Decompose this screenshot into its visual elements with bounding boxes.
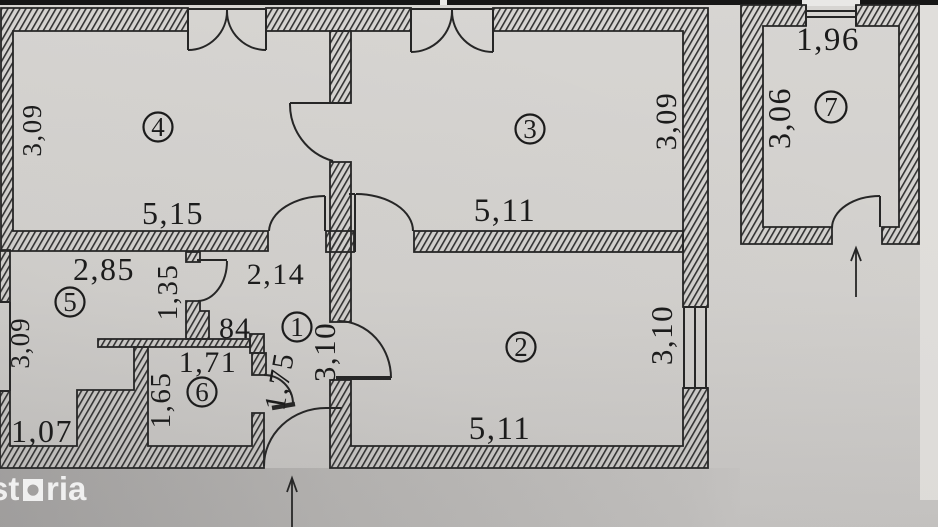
door to room 6: arc <box>264 375 293 404</box>
entrance door arc <box>264 408 326 466</box>
door to room 5: arc <box>198 261 227 301</box>
window W3 jambs <box>410 8 412 52</box>
right paper edge strip <box>920 5 938 500</box>
window W4 jambs <box>187 8 189 50</box>
room 7 top right + right wall + stub <box>856 5 919 244</box>
top exterior wall left segment + left wall + divider wall rooms 4|5 <box>1 8 268 251</box>
door to room 3: arc <box>356 194 413 231</box>
entrance arrow <box>291 479 293 527</box>
room 7 arrow <box>855 250 857 297</box>
notch in black bar <box>440 0 447 5</box>
window in room 7 top wall <box>805 5 807 26</box>
room 7 door: leaf <box>879 196 881 227</box>
room label 7 <box>816 92 847 123</box>
bottom wall right + central wall lower + right wall lower <box>330 380 708 468</box>
bottom-left wall complex (left wall lower, bottom wall, mass, room 6 walls) <box>0 347 264 468</box>
white tab above room 7 window <box>802 0 860 6</box>
room 5 door pier <box>186 301 209 339</box>
bottom grey band <box>0 468 740 527</box>
central wall junction block <box>326 231 354 252</box>
central wall middle segment <box>330 162 351 322</box>
central wall upper segment (rooms 4|3) <box>330 31 351 103</box>
door rooms 4-3: arc <box>290 103 333 161</box>
window in left wall of room 5 <box>9 302 11 391</box>
door to room 6: leaf (thick) <box>272 404 295 408</box>
top black bar <box>0 0 938 5</box>
room label 5 <box>56 287 85 317</box>
door corridor to room 4: arc <box>269 196 325 231</box>
room label 1 <box>283 312 312 342</box>
room label 2 <box>507 332 536 362</box>
room label 4 <box>144 112 173 142</box>
room label 3 <box>516 114 545 144</box>
door rooms 4-3: leaf <box>290 102 350 104</box>
left exterior wall mid <box>0 250 10 302</box>
room 3 bottom wall <box>414 231 683 252</box>
window W4 facade line <box>188 8 266 10</box>
door to room 2: leaf (thick) <box>336 376 391 380</box>
watermark storia <box>0 470 87 507</box>
window in right wall of room 2 <box>683 306 708 308</box>
top exterior wall middle segment <box>266 8 411 31</box>
room 7 left+top+bottom walls <box>741 5 832 244</box>
window W3 facade line <box>411 8 493 10</box>
top exterior wall right segment + right exterior wall upper <box>493 8 708 307</box>
door to room 2: arc <box>339 321 391 378</box>
room 6 top wall end block <box>250 334 264 353</box>
room 5 door stub <box>186 252 200 262</box>
door corridor to room 4: leaf <box>324 196 326 231</box>
window W3 casement arcs <box>411 11 452 52</box>
room 7 door: arc <box>832 196 880 228</box>
room 6 right wall upper <box>252 353 266 375</box>
window W4 casement arcs <box>188 11 227 50</box>
room label 6 <box>188 377 217 407</box>
door to room 3: leaf <box>354 194 356 252</box>
door to room 5: leaf <box>197 259 227 261</box>
room 6 top thin wall <box>98 339 250 347</box>
